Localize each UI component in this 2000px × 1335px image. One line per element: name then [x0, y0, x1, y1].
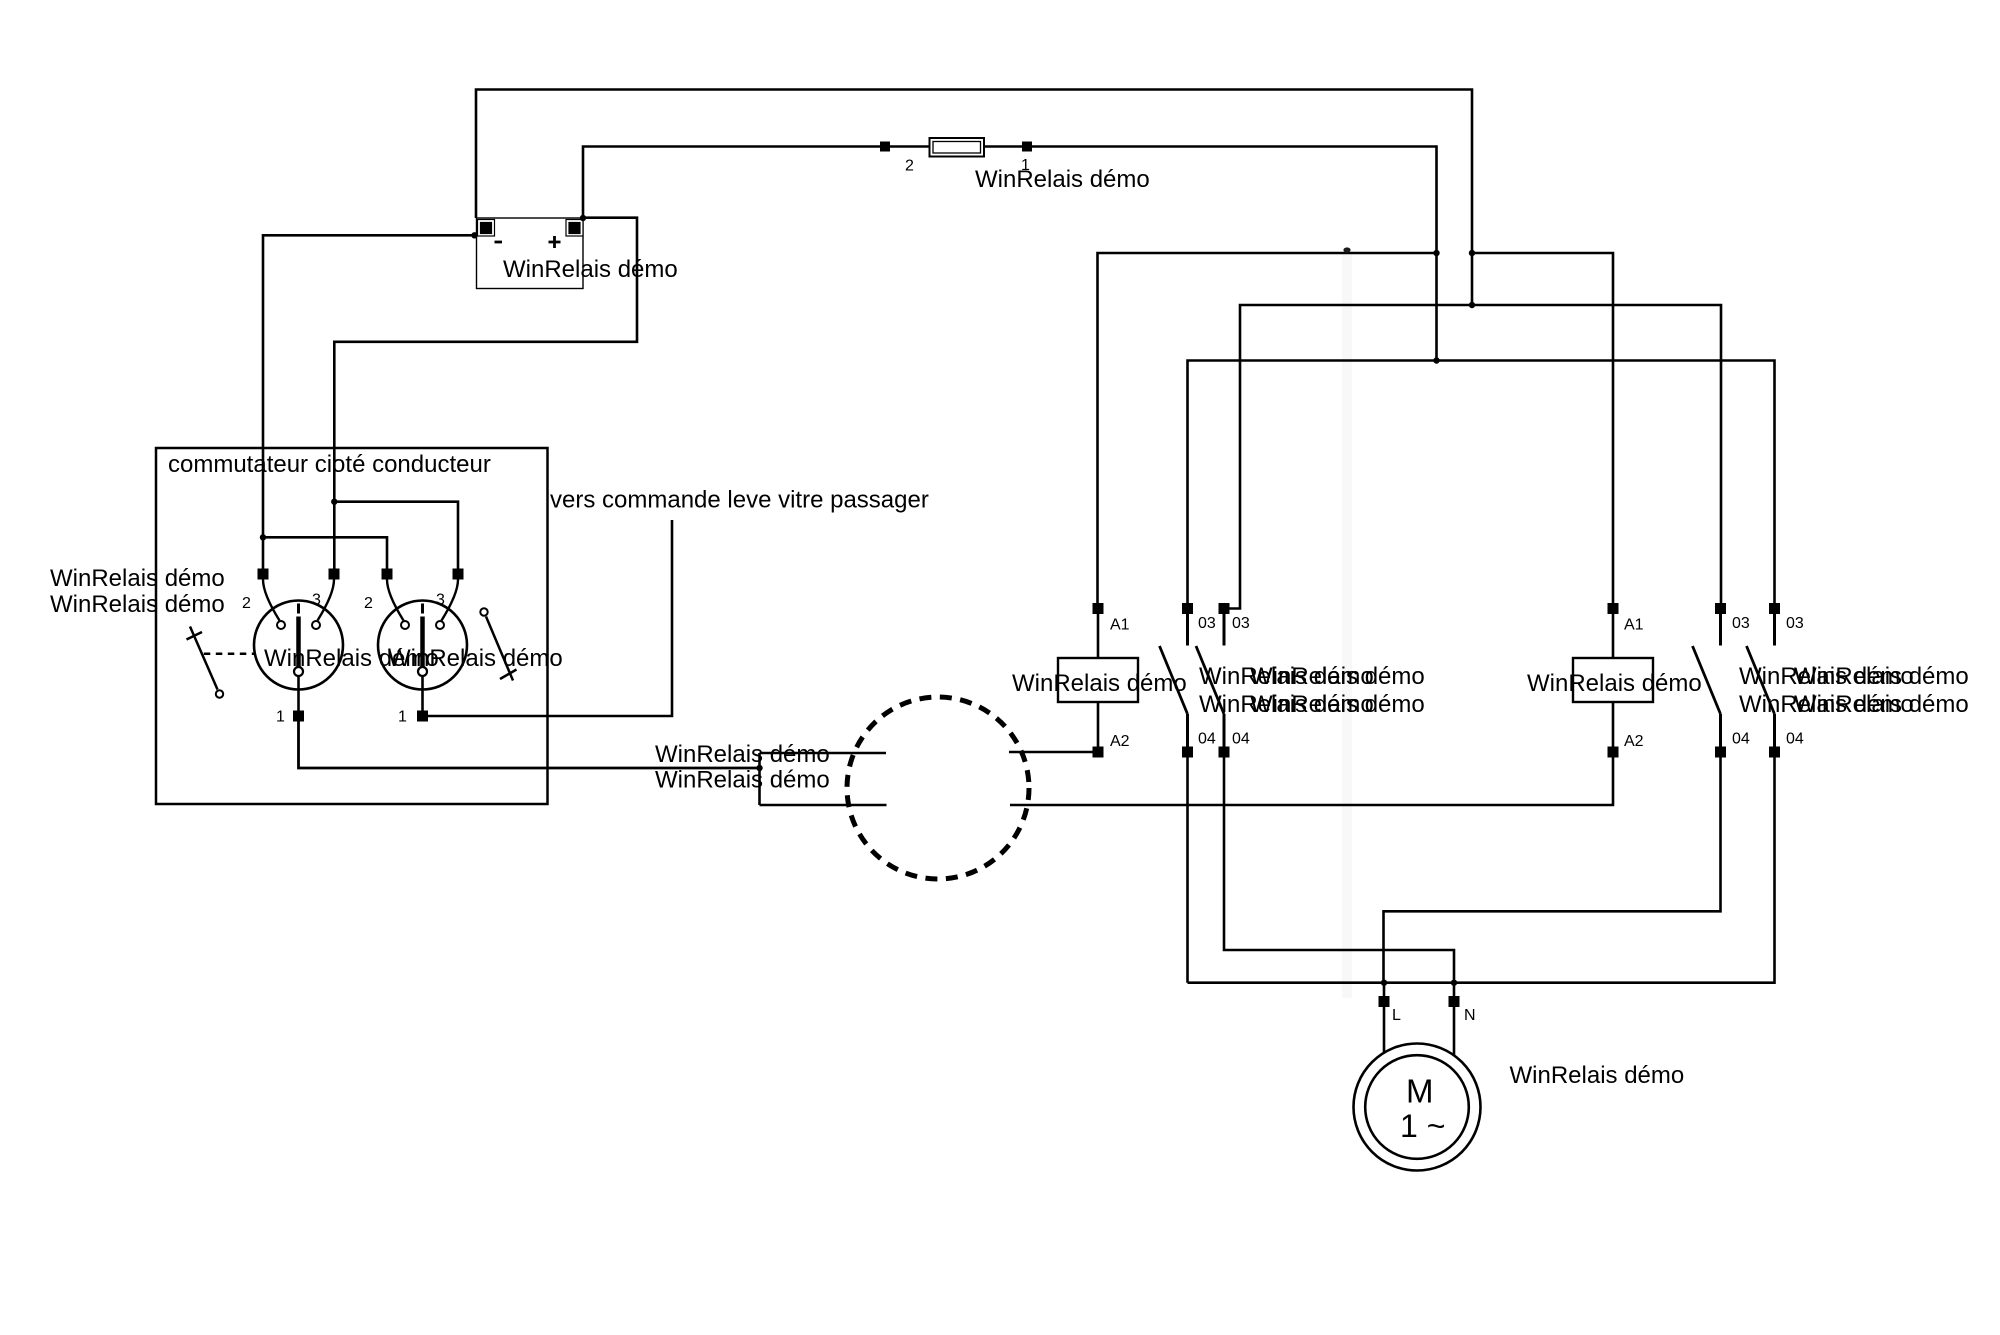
junction battery minus [471, 232, 477, 238]
wire connector upper left [760, 752, 887, 755]
switch S1 pin2 link [263, 580, 280, 621]
svg-text:04: 04 [1732, 731, 1750, 748]
motor M1 terminal N square [1449, 996, 1460, 1007]
svg-text:WinRelais démo: WinRelais démo [503, 256, 678, 283]
switch S1 pin3 contact circle [312, 621, 320, 629]
motor M1 terminal L square [1379, 996, 1390, 1007]
svg-text:WinRelais démo: WinRelais démo [655, 767, 830, 794]
lever 1 dashed link [204, 653, 255, 656]
switch S2 circle [378, 601, 467, 690]
svg-text:04: 04 [1786, 731, 1804, 748]
junction node motor L [1381, 980, 1387, 986]
wire battery plus to switch1 pin3 [334, 218, 637, 569]
switch S2 selector dash [421, 604, 424, 614]
svg-text:03: 03 [1232, 615, 1250, 632]
wire relay1 contact2 to motor N [1224, 758, 1454, 983]
contact K1-1 terminal 03 [1182, 603, 1193, 614]
svg-text:L: L [1392, 1007, 1401, 1024]
svg-text:WinRelais démo: WinRelais démo [655, 741, 830, 768]
svg-text:WinRelais démo: WinRelais démo [1510, 1062, 1685, 1089]
wire battery minus to switch1 pin2 [263, 235, 475, 568]
fuse terminal 2 [880, 142, 890, 152]
wire fuse line from battery plus to vertical 1436 [583, 147, 1437, 361]
contact K2-1 bottom stub [1719, 714, 1722, 747]
connector X1 dashed circle [847, 697, 1029, 879]
svg-text:WinRelais démo: WinRelais démo [1794, 691, 1969, 718]
switch S2 pin1 stub [421, 676, 424, 711]
svg-text:03: 03 [1198, 615, 1216, 632]
wire vers commande leve vitre [428, 520, 672, 716]
lever 1 tick [187, 632, 203, 640]
junction node fuse-A1 [1433, 250, 1439, 256]
svg-text:2: 2 [242, 595, 251, 612]
lever 1 circle [216, 690, 223, 697]
junction node top-253 [1469, 250, 1475, 256]
wire relay2 coil stubs [1612, 614, 1615, 747]
svg-text:WinRelais démo: WinRelais démo [50, 591, 225, 618]
junction node minus branch [260, 534, 266, 540]
switch S2 terminal 3 square [453, 569, 464, 580]
contact K1-2 blade [1196, 646, 1224, 714]
contact K2-1 top stub [1719, 614, 1722, 646]
battery polarity minus [495, 241, 503, 244]
svg-text:3: 3 [312, 592, 321, 609]
svg-text:A2: A2 [1110, 733, 1130, 750]
svg-text:2: 2 [905, 158, 914, 175]
svg-text:1 ~: 1 ~ [1400, 1108, 1445, 1144]
switch S2 terminal 2 square [382, 569, 393, 580]
junction battery plus corner [580, 215, 586, 221]
switch S1 terminal 2 square [258, 569, 269, 580]
switch S1 terminal 1 square [293, 711, 304, 722]
wire connector left link [758, 753, 761, 805]
wire connector lower right to relay2 A2 [1010, 758, 1613, 806]
svg-text:WinRelais démo: WinRelais démo [1012, 670, 1187, 697]
svg-text:WinRelais démo: WinRelais démo [388, 645, 563, 672]
contact K1-2 terminal 04 [1219, 747, 1230, 758]
wire branch to switch2 pin2 [263, 537, 387, 568]
wire motor N stub [1453, 983, 1456, 1055]
svg-text:A1: A1 [1624, 617, 1644, 634]
wire relay2 contact1 to motor L [1384, 758, 1721, 983]
erased-wire artifact stripe [1342, 254, 1352, 998]
motor M1 inner circle [1365, 1055, 1469, 1159]
switch S2 terminal 1 square [417, 711, 428, 722]
switch S1 terminal 3 square [329, 569, 340, 580]
commutateur box [156, 448, 548, 804]
switch S2 pin3 contact circle [436, 621, 444, 629]
fuse terminal 1 [1022, 142, 1032, 152]
switch S2 pin3 link [442, 580, 459, 621]
svg-text:M: M [1406, 1073, 1434, 1110]
junction node connector left [756, 765, 762, 771]
contact K1-1 terminal 04 [1182, 747, 1193, 758]
contact K2-2 terminal 03 [1769, 603, 1780, 614]
svg-text:03: 03 [1786, 615, 1804, 632]
contact K2-2 terminal 04 [1769, 747, 1780, 758]
junction node motor N [1451, 980, 1457, 986]
contact K2-2 blade [1747, 646, 1775, 714]
switch S2 bottom contact circle [418, 667, 427, 676]
svg-text:1: 1 [398, 709, 407, 726]
fuse F1 inner [933, 142, 981, 154]
switch S1 pin1 stub [297, 676, 300, 711]
wire switch1 pin1 to connector [299, 722, 760, 769]
relay K1 terminal A2 [1093, 747, 1104, 758]
svg-text:A2: A2 [1624, 733, 1644, 750]
svg-text:WinRelais démo: WinRelais démo [1794, 663, 1969, 690]
contact K2-2 bottom stub [1773, 714, 1776, 747]
switch S1 circle [254, 601, 343, 690]
wire connector lower left [760, 804, 887, 807]
contact K1-1 bottom stub [1186, 714, 1189, 747]
svg-text:WinRelais démo: WinRelais démo [50, 565, 225, 592]
wire connector upper right to relay1 A2 [1009, 751, 1093, 754]
svg-text:WinRelais démo: WinRelais démo [1250, 663, 1425, 690]
svg-text:WinRelais démo: WinRelais démo [1250, 691, 1425, 718]
switch S1 pin2 contact circle [277, 621, 285, 629]
contact K2-1 blade [1693, 646, 1721, 714]
svg-text:WinRelais démo: WinRelais démo [975, 166, 1150, 193]
wire top bus from battery minus to right column [476, 90, 1472, 306]
contact K2-1 terminal 04 [1715, 747, 1726, 758]
motor M1 outer circle [1354, 1044, 1481, 1171]
contact K1-1 blade [1160, 646, 1188, 714]
relay K2 terminal A2 [1608, 747, 1619, 758]
svg-text:vers commande leve vitre passa: vers commande leve vitre passager [550, 487, 929, 514]
svg-text:N: N [1464, 1007, 1476, 1024]
wire relay1 A1 feed [1098, 253, 1437, 603]
lever 2 circle [480, 608, 487, 615]
wire relay1 contact1 to motor L [1186, 758, 1189, 983]
switch S1 selector dash [297, 604, 300, 614]
svg-text:04: 04 [1198, 731, 1216, 748]
svg-text:WinRelais démo: WinRelais démo [1527, 670, 1702, 697]
switch S1 selector bar [296, 617, 301, 669]
junction node fuse-360 [1433, 357, 1439, 363]
wire relay1 coil stubs [1097, 614, 1100, 747]
wire motor L stub [1383, 983, 1386, 1053]
lever 2 arm [486, 617, 513, 681]
svg-text:commutateur cioté conducteur: commutateur cioté conducteur [168, 451, 491, 478]
switch S1 bottom contact circle [294, 667, 303, 676]
artifact nub [1343, 247, 1350, 252]
contact K1-2 terminal 03 [1219, 603, 1230, 614]
contact K2-2 top stub [1773, 614, 1776, 646]
lever 2 tick [500, 670, 517, 680]
relay K2 terminal A1 [1608, 603, 1619, 614]
junction node top-305 [1469, 302, 1475, 308]
contact K1-2 bottom stub [1223, 714, 1226, 747]
switch S2 pin2 contact circle [401, 621, 409, 629]
switch S2 selector bar [420, 617, 425, 669]
svg-text:04: 04 [1232, 731, 1250, 748]
switch S1 pin3 link [318, 580, 335, 621]
battery terminal minus [478, 220, 495, 237]
switch S2 pin2 link [387, 580, 404, 621]
svg-text:2: 2 [364, 595, 373, 612]
wire relay2 A1 feed [1472, 253, 1613, 603]
junction node plus branch [331, 499, 337, 505]
wire contacts feed y360 [1188, 361, 1775, 604]
svg-text:A1: A1 [1110, 617, 1130, 634]
wire motor bus [1188, 758, 1775, 983]
relay K1 terminal A1 [1093, 603, 1104, 614]
wire contacts cross feed y305 [1229, 305, 1721, 609]
battery B1 body [477, 218, 584, 289]
svg-text:03: 03 [1732, 615, 1750, 632]
contact K2-1 terminal 03 [1715, 603, 1726, 614]
fuse F1 body [930, 138, 985, 157]
contact K1-2 top stub [1223, 614, 1226, 646]
relay coil K2 [1573, 658, 1653, 702]
battery polarity plus [549, 236, 561, 248]
wire branch to switch2 pin3 [334, 502, 458, 569]
battery terminal plus [566, 220, 583, 237]
svg-text:3: 3 [436, 592, 445, 609]
svg-text:1: 1 [276, 709, 285, 726]
contact K1-1 top stub [1186, 614, 1189, 646]
relay coil K1 [1058, 658, 1138, 702]
lever 1 arm [190, 627, 218, 690]
